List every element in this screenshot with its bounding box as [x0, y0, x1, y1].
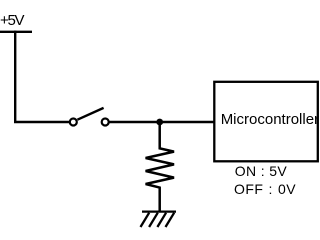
svg-text:ON : 5V: ON : 5V	[235, 163, 288, 179]
svg-text:OFF : 0V: OFF : 0V	[234, 181, 296, 197]
svg-text:Microcontroller: Microcontroller	[221, 111, 319, 128]
svg-text:+5V: +5V	[0, 12, 25, 29]
